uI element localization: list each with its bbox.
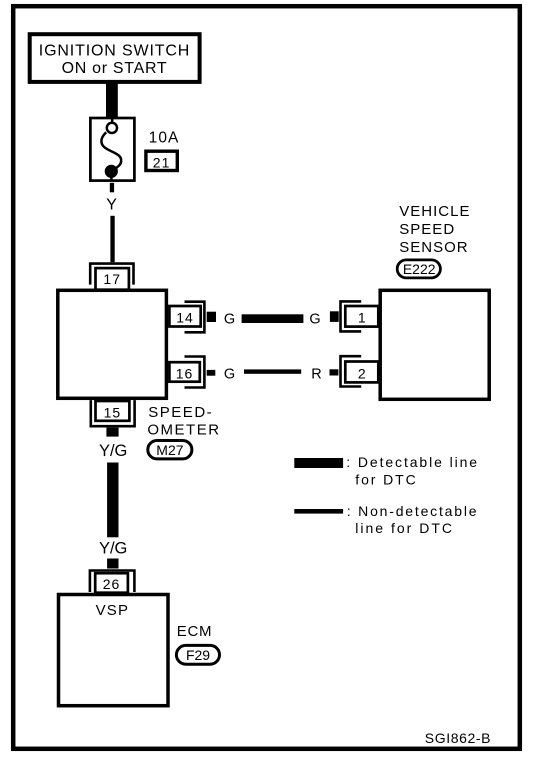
svg-text:IGNITION SWITCH: IGNITION SWITCH — [39, 43, 190, 60]
wire Y/G vertical (thick) — [107, 463, 118, 538]
connector 17 bracket — [90, 264, 133, 285]
wire 16 to 2 (thin, non-detectable) — [244, 369, 301, 373]
svg-text:: Non-detectable: : Non-detectable — [347, 503, 479, 519]
wire ignition to fuse (thick) — [106, 82, 118, 118]
svg-text:G: G — [224, 367, 235, 383]
svg-text:E222: E222 — [403, 261, 436, 277]
svg-text:line for DTC: line for DTC — [355, 520, 454, 536]
stub pin 14 — [207, 312, 216, 322]
fuse number 21 box — [146, 151, 177, 170]
connector pin 15 — [96, 401, 130, 421]
svg-text:: Detectable line: : Detectable line — [346, 454, 479, 470]
svg-text:14: 14 — [176, 310, 194, 326]
fuse F21 box — [90, 118, 134, 181]
connector 14 bracket — [185, 302, 205, 333]
svg-text:17: 17 — [103, 271, 121, 287]
connector pin 14 — [169, 306, 200, 327]
connector 16 bracket — [185, 357, 205, 388]
stub pin 2 — [330, 369, 339, 375]
svg-text:1: 1 — [358, 310, 366, 326]
svg-text:26: 26 — [103, 576, 121, 592]
connector 15 bracket — [91, 400, 135, 426]
ignition switch box — [30, 34, 200, 82]
svg-text:VEHICLE: VEHICLE — [399, 203, 470, 220]
connector pin 2 — [345, 362, 378, 383]
connector id F29 oval — [176, 645, 219, 664]
svg-text:2: 2 — [358, 366, 366, 382]
svg-text:16: 16 — [176, 366, 194, 382]
svg-text:VSP: VSP — [96, 602, 130, 619]
connector 26 bracket — [90, 571, 134, 593]
svg-text:10A: 10A — [149, 130, 180, 147]
svg-text:Y/G: Y/G — [99, 539, 127, 557]
wire stub below fuse — [110, 183, 114, 193]
stub pin 15 — [106, 428, 118, 437]
svg-text:OMETER: OMETER — [147, 422, 220, 439]
svg-text:Y: Y — [106, 197, 117, 214]
svg-text:G: G — [309, 312, 320, 328]
vehicle speed sensor box — [380, 290, 489, 399]
connector pin 26 — [95, 573, 128, 593]
svg-text:SPEED: SPEED — [399, 221, 455, 238]
connector id E222 oval — [397, 260, 440, 278]
svg-text:G: G — [224, 312, 235, 328]
connector pin 1 — [345, 306, 378, 327]
wire Y vertical — [110, 216, 114, 262]
svg-text:ON or START: ON or START — [62, 60, 168, 77]
svg-text:21: 21 — [153, 155, 171, 171]
svg-text:ECM: ECM — [177, 623, 212, 640]
legend non-detectable bar — [294, 509, 343, 514]
connector pin 16 — [169, 362, 199, 382]
svg-text:SGI862-B: SGI862-B — [425, 730, 491, 746]
fuse element — [101, 117, 121, 181]
legend detectable bar — [294, 458, 343, 468]
ECM box — [59, 595, 169, 706]
svg-text:Y/G: Y/G — [99, 442, 127, 460]
svg-text:F29: F29 — [186, 647, 210, 663]
svg-text:SENSOR: SENSOR — [399, 239, 468, 256]
stub pin 16 — [207, 370, 216, 376]
wire stub above 26 (thick) — [107, 559, 118, 569]
svg-text:15: 15 — [104, 405, 122, 421]
connector id M27 oval — [148, 441, 192, 459]
speedometer box — [58, 290, 167, 398]
stub pin 1 — [330, 311, 339, 322]
svg-text:M27: M27 — [156, 442, 183, 458]
svg-text:SPEED-: SPEED- — [148, 404, 213, 421]
wire 14 to 1 (thick, detectable) — [242, 314, 304, 323]
svg-text:for DTC: for DTC — [355, 471, 417, 487]
connector 2 bracket — [341, 356, 362, 386]
connector pin 17 — [96, 268, 129, 290]
svg-text:R: R — [311, 367, 321, 383]
connector 1 bracket — [341, 301, 362, 331]
